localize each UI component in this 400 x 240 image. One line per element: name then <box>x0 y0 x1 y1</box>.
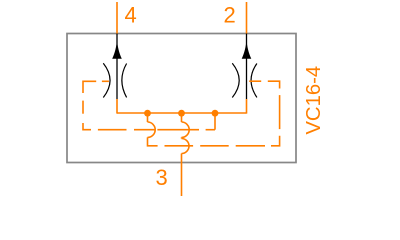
pilot line 2 dash <box>236 145 265 147</box>
wire V1 to node A <box>116 99 118 114</box>
check valve V1 poppet arrow <box>112 41 122 59</box>
wire hop over pilot line 1 <box>182 122 190 137</box>
check valve V1 flow line <box>116 34 118 100</box>
junction node B <box>178 110 185 117</box>
port 4 line (external) <box>116 2 118 34</box>
pilot line 1 dash <box>98 129 127 131</box>
wire hop over pilot line 1 <box>148 122 156 137</box>
wire node B drop <box>181 113 183 122</box>
check valve V1 left seat arc <box>103 63 110 97</box>
pilot line 2 upper right corner <box>268 81 280 88</box>
pilot line 1 corner at V1 seat <box>83 81 96 93</box>
port 3 line <box>181 154 183 197</box>
check valve V2 right seat arc <box>251 64 257 98</box>
wire main gallery <box>117 112 247 114</box>
valve body boundary box <box>67 34 296 163</box>
svg-text:VC16-4: VC16-4 <box>303 66 325 135</box>
wire between hops <box>181 137 183 138</box>
svg-text:3: 3 <box>156 165 168 190</box>
wire node C elbow <box>206 129 215 131</box>
check valve V2 flow line <box>246 34 248 100</box>
pilot line 2 dash to V2 seat <box>249 80 261 82</box>
pilot line 2 dash <box>200 145 229 147</box>
pilot line 2 lower right corner <box>271 136 280 146</box>
wire node A drop <box>147 113 149 122</box>
wire hop over pilot line 2 <box>182 139 190 154</box>
wire V2 to node C <box>246 99 248 114</box>
pilot line 1 dash to V1 seat <box>102 80 109 82</box>
check valve V2 poppet arrow <box>242 41 252 59</box>
junction node A <box>144 110 151 117</box>
junction node C <box>212 110 219 117</box>
check valve V2 left seat arc <box>232 63 239 97</box>
wire node A elbow into pilot line 2 <box>148 137 158 145</box>
port 2 line (external) <box>246 2 248 34</box>
pilot line 1 lower corner <box>83 123 91 130</box>
wire node C drop <box>214 113 216 130</box>
pilot line 1 dash <box>157 129 199 131</box>
pilot line 2 dash <box>165 145 194 147</box>
check valve V1 right seat arc <box>122 64 127 98</box>
svg-text:2: 2 <box>224 3 236 28</box>
pilot line 1 dash vertical <box>82 101 84 114</box>
pilot line 1 dash <box>134 129 155 131</box>
pilot line 2 dash vertical <box>279 95 281 129</box>
svg-text:4: 4 <box>125 3 137 28</box>
